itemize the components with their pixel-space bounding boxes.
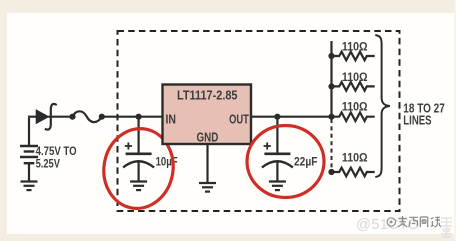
capacitor C2 top plate [264, 153, 290, 156]
wire squiggle (cable) [73, 111, 102, 122]
battery BT1 plates [20, 146, 38, 163]
capacitor C1 top plate [126, 153, 152, 156]
GND pin wire [206, 144, 208, 183]
node dot C2 tap [274, 114, 280, 120]
diode D1 [36, 110, 48, 123]
bus wire vertical [330, 41, 332, 117]
watermark light CJK glyph 1 [441, 218, 452, 229]
capacitor C1 plus sign [125, 142, 132, 149]
battery BT1 negative stem wire [28, 163, 30, 181]
node junction dot [99, 114, 105, 120]
node junction dot [69, 114, 75, 120]
diode D1 curved cathode (break squiggle) [45, 104, 57, 130]
svg-text:LT1117-2.85: LT1117-2.85 [177, 88, 238, 103]
ground (battery) [21, 182, 38, 191]
ground (C1) [130, 182, 147, 191]
resistor R3 [332, 112, 375, 121]
node dot R4 [328, 169, 334, 175]
watermark logo circle [387, 218, 395, 226]
ground (C2) [269, 182, 286, 191]
wire diode to node [48, 116, 72, 118]
resistor R1 [332, 52, 375, 61]
wire battery to diode [28, 116, 37, 118]
wire to IN pin [102, 116, 163, 118]
svg-text:4.75V TO: 4.75V TO [36, 144, 77, 158]
svg-text:LINES: LINES [403, 112, 432, 127]
wire OUT to bus [251, 116, 332, 118]
ground (U1) [199, 183, 216, 192]
watermark dark CJK glyph A [398, 216, 408, 227]
dashed enclosure box [118, 31, 400, 211]
svg-text:110Ω: 110Ω [342, 70, 368, 84]
capacitor C1 bottom wire [138, 163, 140, 182]
red annotation circle around C1 [98, 123, 180, 214]
svg-text:110Ω: 110Ω [342, 150, 368, 164]
brace for line group [375, 35, 390, 177]
svg-text:5.25V: 5.25V [36, 157, 60, 171]
capacitor C2 curved plate [262, 161, 293, 167]
svg-text:GND: GND [197, 131, 219, 145]
svg-text:OUT: OUT [229, 112, 249, 127]
bus wire dashed continuation [331, 119, 333, 172]
watermark light CJK glyph 2 [441, 231, 452, 237]
capacitor C2 top wire [276, 117, 278, 154]
capacitor C1 curved plate [123, 161, 154, 167]
svg-text:110Ω: 110Ω [342, 100, 368, 114]
watermark dark CJK glyph C [420, 217, 427, 227]
resistor R2 [332, 82, 375, 91]
regulator U1 LT1117-2.85 body [163, 85, 252, 145]
watermark dark CJK glyph D [431, 217, 441, 227]
node dot R2 [328, 83, 334, 89]
node dot C1 tap [136, 114, 142, 120]
svg-text:110Ω: 110Ω [342, 40, 368, 54]
capacitor C2 plus sign [264, 142, 271, 149]
red annotation circle around C2 [247, 126, 324, 198]
node dot R1 [328, 53, 334, 59]
battery BT1 positive stem wire [28, 118, 30, 146]
svg-text:IN: IN [166, 112, 177, 127]
node dot R3 [328, 114, 334, 120]
watermark dark CJK glyph B [409, 217, 418, 227]
capacitor C1 top wire [138, 117, 140, 154]
capacitor C2 bottom wire [276, 163, 278, 182]
resistor R4 [332, 168, 375, 177]
svg-text:22µF: 22µF [294, 155, 318, 169]
